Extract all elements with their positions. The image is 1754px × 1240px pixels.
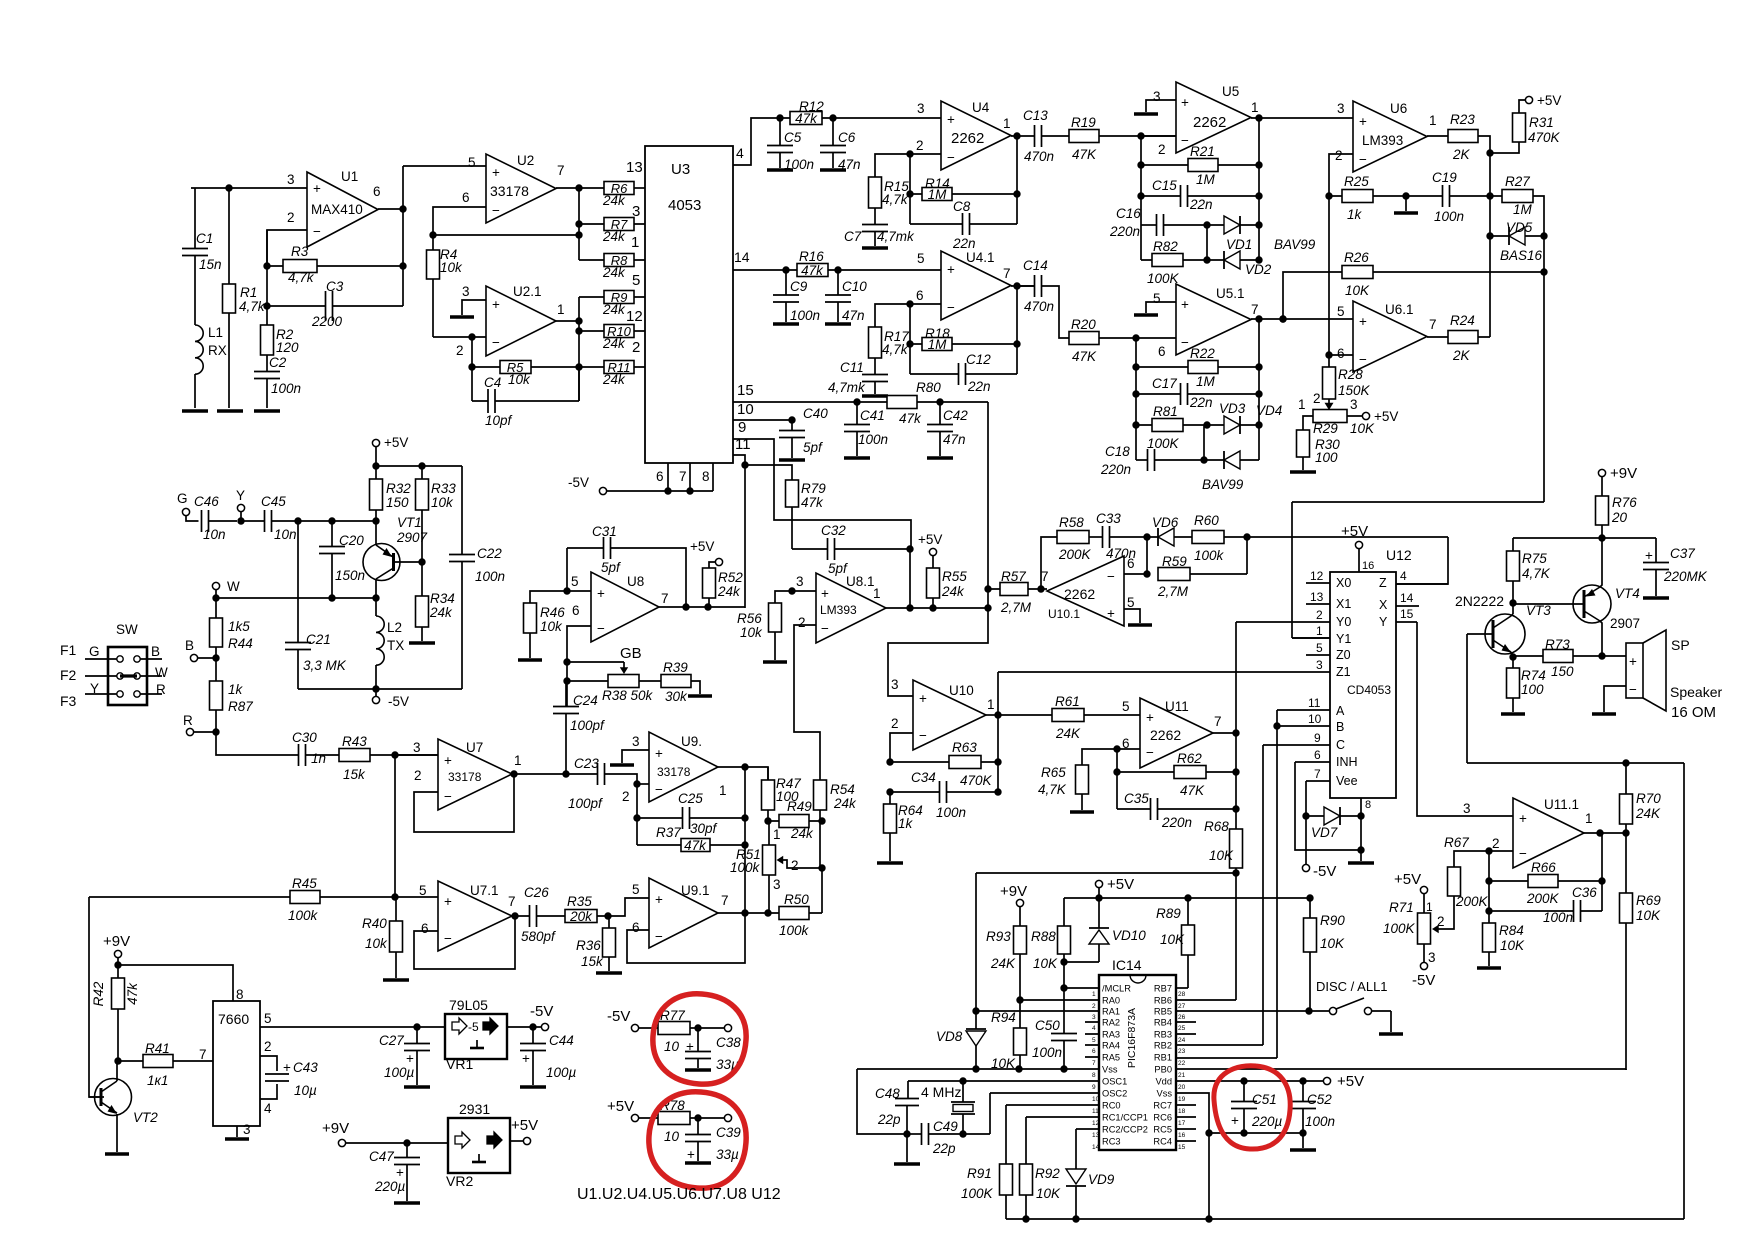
- capacitor C22: [461, 466, 463, 555]
- svg-text:4053: 4053: [668, 197, 701, 214]
- terminal +5V Vdd: [1323, 1077, 1330, 1084]
- resistor R42: [112, 978, 125, 1009]
- svg-text:100K: 100K: [1383, 921, 1416, 936]
- svg-text:OSC2: OSC2: [1102, 1089, 1127, 1099]
- resistor R35: [565, 910, 597, 923]
- terminal +5V IC14: [1095, 880, 1102, 887]
- svg-text:B: B: [1336, 720, 1344, 734]
- ground C41: [844, 456, 870, 459]
- svg-text:100k: 100k: [288, 908, 319, 923]
- svg-text:C37: C37: [1670, 546, 1695, 561]
- resistor R68: [1230, 829, 1243, 868]
- svg-text:RA5: RA5: [1102, 1053, 1120, 1063]
- wire RB2: [1176, 1044, 1263, 1046]
- junction U7.1 pin5: [391, 893, 398, 900]
- diode VD4: [1224, 451, 1240, 469]
- op-amp U1 MAX410: [307, 172, 378, 247]
- resistor R58: [1057, 531, 1089, 544]
- svg-text:C12: C12: [966, 352, 991, 367]
- resistor R81: [1152, 419, 1183, 432]
- svg-text:C25: C25: [678, 791, 703, 806]
- svg-text:2: 2: [798, 615, 806, 630]
- svg-text:200K: 200K: [1455, 894, 1489, 909]
- svg-text:C44: C44: [549, 1033, 574, 1048]
- svg-text:100k: 100k: [1194, 548, 1225, 563]
- wire VD5 to R26: [1543, 236, 1545, 272]
- capacitor C52: [1302, 1081, 1304, 1102]
- wire pin6 column: [909, 304, 911, 374]
- svg-text:+5V: +5V: [1394, 871, 1421, 888]
- svg-text:47K: 47K: [1180, 783, 1205, 798]
- svg-text:C20: C20: [339, 533, 364, 548]
- junction base: [372, 517, 379, 524]
- svg-text:220n: 220n: [1100, 462, 1131, 477]
- wire U11.1 output: [1584, 832, 1626, 834]
- svg-text:15n: 15n: [199, 257, 222, 272]
- svg-text:C6: C6: [838, 130, 856, 145]
- wire U7 feedback: [414, 774, 514, 832]
- svg-text:R22: R22: [1190, 346, 1215, 361]
- svg-text:7: 7: [1251, 302, 1259, 317]
- svg-text:C51: C51: [1252, 1092, 1277, 1107]
- svg-text:10: 10: [664, 1039, 680, 1054]
- svg-text:R28: R28: [1338, 367, 1363, 382]
- svg-text:C15: C15: [1152, 178, 1177, 193]
- junction R73 right: [1598, 652, 1605, 659]
- resistor R65: [1076, 765, 1089, 794]
- svg-text:7: 7: [508, 894, 516, 909]
- svg-text:C22: C22: [477, 546, 502, 561]
- svg-text:R45: R45: [292, 876, 317, 891]
- junction R19 out: [1137, 132, 1144, 139]
- svg-text:1: 1: [1429, 113, 1437, 128]
- svg-text:−: −: [1359, 352, 1367, 367]
- diode VD7: [1324, 807, 1340, 825]
- svg-text:1: 1: [773, 827, 781, 842]
- diode VD6: [1158, 528, 1174, 546]
- svg-text:LM393: LM393: [820, 603, 857, 617]
- svg-text:C31: C31: [592, 524, 617, 539]
- svg-text:7: 7: [1003, 266, 1011, 281]
- svg-text:22: 22: [1178, 1060, 1186, 1067]
- svg-text:10K: 10K: [991, 1056, 1016, 1071]
- wire U11 output: [1213, 732, 1236, 734]
- svg-text:100pf: 100pf: [568, 796, 603, 811]
- svg-text:22n: 22n: [1189, 197, 1213, 212]
- svg-text:R54: R54: [830, 782, 855, 797]
- svg-text:100K: 100K: [961, 1186, 994, 1201]
- svg-text:R3: R3: [291, 244, 309, 259]
- svg-text:VD3: VD3: [1219, 401, 1246, 416]
- svg-text:+5V: +5V: [1337, 1073, 1364, 1090]
- terminal -5V U3: [599, 487, 606, 494]
- potentiometer R51: [763, 845, 776, 875]
- svg-text:VD1: VD1: [1226, 237, 1252, 252]
- junction R57 out: [1037, 585, 1044, 592]
- svg-text:14: 14: [1400, 591, 1414, 605]
- op-amp U10 2262: [913, 680, 986, 750]
- resistor R28: [1323, 367, 1336, 399]
- svg-text:U2.1: U2.1: [513, 284, 542, 299]
- ground switch: [1379, 1032, 1403, 1035]
- svg-text:5: 5: [917, 251, 925, 266]
- junction C9: [782, 266, 789, 273]
- junction R20 out: [1132, 334, 1139, 341]
- wire RC2 / VD9: [1076, 1129, 1099, 1169]
- wire U4 output: [1011, 135, 1035, 137]
- svg-text:24k: 24k: [790, 826, 814, 841]
- svg-text:R29: R29: [1313, 421, 1338, 436]
- wire +5V row IC14: [1064, 897, 1310, 899]
- svg-text:R25: R25: [1344, 174, 1369, 189]
- svg-text:2: 2: [1158, 142, 1166, 157]
- svg-text:C14: C14: [1023, 258, 1048, 273]
- wire INH pin6: [1295, 762, 1361, 850]
- resistor R30: [1297, 430, 1310, 457]
- svg-text:VD10: VD10: [1112, 928, 1146, 943]
- junction R43 out: [391, 751, 398, 758]
- terminal +5V VR2: [523, 1137, 530, 1144]
- svg-text:F2: F2: [60, 667, 77, 683]
- svg-text:R92: R92: [1035, 1166, 1060, 1181]
- svg-text:+: +: [1629, 654, 1637, 669]
- resistor R31: [1513, 113, 1526, 142]
- svg-text:Z1: Z1: [1336, 665, 1351, 679]
- svg-text:C32: C32: [821, 523, 846, 538]
- terminal -5V R71: [1420, 962, 1427, 969]
- wire U10.1 pin6: [1124, 573, 1147, 575]
- ground U5 pin3: [1134, 112, 1158, 115]
- wire gnd row C51/C52: [1209, 1132, 1303, 1134]
- svg-text:4,7mk: 4,7mk: [877, 229, 915, 244]
- junction pin6: [1325, 351, 1332, 358]
- resistor R55: [927, 568, 940, 598]
- svg-text:R36: R36: [576, 938, 601, 953]
- svg-text:R73: R73: [1545, 637, 1570, 652]
- capacitor C47: [406, 1143, 408, 1158]
- svg-text:3: 3: [1463, 801, 1471, 816]
- svg-text:24K: 24K: [1055, 726, 1081, 741]
- junction -5V: [372, 685, 379, 692]
- svg-text:RA0: RA0: [1102, 996, 1120, 1006]
- resistor R10: [604, 325, 634, 338]
- crystal 4MHz: [951, 1081, 975, 1114]
- resistor R78: [658, 1112, 690, 1125]
- svg-text:2: 2: [264, 1039, 272, 1054]
- wire right down to bottom: [1683, 763, 1685, 1219]
- capacitor C39: [697, 1118, 699, 1135]
- terminal -5V R77: [631, 1024, 638, 1031]
- wire RB1: [1176, 1057, 1277, 1059]
- wire +5V row: [376, 465, 462, 467]
- svg-text:22n: 22n: [952, 236, 976, 251]
- junction Y: [237, 517, 244, 524]
- svg-text:10K: 10K: [1209, 848, 1234, 863]
- svg-text:−: −: [597, 621, 605, 636]
- wire R62/C35 column: [1116, 749, 1118, 809]
- resistor R43: [339, 749, 370, 762]
- svg-text:2N2222: 2N2222: [1455, 593, 1504, 609]
- capacitor C49: [907, 1133, 922, 1135]
- junction C41: [853, 398, 860, 405]
- junction R60 out: [1243, 533, 1250, 540]
- svg-text:R: R: [183, 713, 193, 728]
- ground C48: [906, 1134, 908, 1162]
- ground R36: [596, 971, 622, 974]
- terminal G: [182, 508, 189, 515]
- svg-text:C45: C45: [261, 494, 286, 509]
- svg-text:C16: C16: [1116, 206, 1141, 221]
- capacitor C37: [1655, 538, 1657, 563]
- ground R34: [409, 641, 435, 644]
- svg-text:+: +: [947, 112, 955, 127]
- resistor R14: [922, 188, 952, 201]
- capacitor C24: [565, 681, 567, 707]
- svg-text:U9.: U9.: [681, 734, 702, 749]
- svg-text:R55: R55: [942, 569, 967, 584]
- junction R3 right: [399, 262, 406, 269]
- wire -5V row TX: [298, 688, 462, 690]
- svg-text:1: 1: [1092, 991, 1096, 998]
- svg-text:VD4: VD4: [1256, 403, 1282, 418]
- svg-text:7: 7: [557, 163, 565, 178]
- svg-text:X: X: [1379, 598, 1388, 612]
- wire U9.1 output: [718, 912, 822, 914]
- svg-text:Y: Y: [236, 488, 245, 503]
- potentiometer R38: [608, 675, 639, 688]
- resistor R20: [1069, 332, 1099, 345]
- svg-text:1: 1: [631, 234, 639, 251]
- diode VD2: [1224, 251, 1240, 269]
- red circle C38: [653, 994, 746, 1084]
- svg-text:R42: R42: [91, 981, 106, 1006]
- resistor R19: [1069, 130, 1099, 143]
- junction C27: [413, 1023, 420, 1030]
- junction C38: [694, 1024, 701, 1031]
- resistor R49: [779, 815, 809, 828]
- terminal +5V R78: [631, 1114, 638, 1121]
- op-amp U5.1: [1176, 284, 1251, 355]
- svg-text:C19: C19: [1432, 170, 1457, 185]
- svg-text:R50: R50: [784, 892, 809, 907]
- svg-text:R82: R82: [1153, 239, 1178, 254]
- svg-text:15k: 15k: [581, 954, 604, 969]
- svg-text:1: 1: [873, 586, 881, 601]
- junction R3 left: [263, 262, 270, 269]
- svg-text:U8: U8: [627, 574, 644, 589]
- svg-text:−: −: [313, 224, 321, 239]
- svg-text:2K: 2K: [1452, 348, 1471, 363]
- ground C5: [767, 168, 793, 171]
- svg-text:11: 11: [735, 436, 751, 453]
- svg-text:10k: 10k: [540, 619, 563, 634]
- svg-text:20: 20: [1611, 510, 1628, 525]
- junction R36: [604, 912, 611, 919]
- junction C39: [694, 1114, 701, 1121]
- svg-text:13: 13: [626, 159, 643, 176]
- svg-text:VT1: VT1: [397, 515, 422, 530]
- resistor R27: [1502, 190, 1533, 203]
- svg-text:C11: C11: [840, 360, 864, 375]
- op-amp U4 2262: [941, 101, 1011, 170]
- svg-text:RA3: RA3: [1102, 1030, 1120, 1040]
- svg-text:7: 7: [721, 893, 729, 908]
- wire C42 net to U10 pin3: [888, 402, 988, 696]
- svg-text:U10.1: U10.1: [1048, 607, 1080, 621]
- svg-text:33178: 33178: [448, 770, 482, 784]
- wire U3 pin11: [733, 455, 745, 608]
- junction pin2: [468, 333, 475, 340]
- svg-text:1n: 1n: [311, 751, 326, 766]
- wire Vss row: [857, 1068, 1099, 1070]
- svg-text:PIC16F873A: PIC16F873A: [1126, 1008, 1138, 1068]
- svg-text:4: 4: [1400, 569, 1407, 583]
- wire 7660 pin5: [260, 1026, 417, 1028]
- svg-text:1: 1: [1585, 811, 1593, 826]
- junction pin6 net: [575, 231, 582, 238]
- svg-text:R40: R40: [362, 916, 387, 931]
- svg-text:5: 5: [632, 882, 640, 897]
- svg-text:2: 2: [791, 858, 799, 873]
- svg-text:4,7k: 4,7k: [882, 342, 909, 357]
- capacitor C1: [194, 188, 196, 249]
- svg-text:+: +: [1359, 114, 1367, 129]
- svg-text:3,3 MK: 3,3 MK: [303, 658, 347, 673]
- junction C25 left: [633, 814, 640, 821]
- capacitor C12: [910, 373, 959, 375]
- svg-text:B: B: [185, 638, 194, 653]
- U3 pins 6 7 8: [668, 463, 713, 491]
- svg-text:100K: 100K: [1147, 436, 1180, 451]
- svg-text:10K: 10K: [1160, 932, 1185, 947]
- svg-text:16 OM: 16 OM: [1671, 704, 1716, 721]
- svg-text:RC7: RC7: [1153, 1101, 1172, 1111]
- junction U2 out: [575, 184, 582, 191]
- junction R4 top: [429, 231, 436, 238]
- 7660 pin3 ground: [236, 1126, 238, 1137]
- svg-text:C17: C17: [1152, 376, 1177, 391]
- junction R10: [575, 327, 582, 334]
- svg-text:+: +: [396, 1165, 404, 1180]
- op-amp U5 2262: [1176, 82, 1251, 153]
- wire R54 bottom: [820, 810, 822, 913]
- svg-text:2,7M: 2,7M: [1000, 600, 1032, 615]
- svg-text:13: 13: [1092, 1132, 1100, 1139]
- svg-text:F1: F1: [60, 642, 77, 658]
- svg-text:R60: R60: [1194, 513, 1219, 528]
- svg-text:RC3: RC3: [1102, 1137, 1121, 1147]
- resistor R40: [390, 921, 403, 952]
- svg-text:220n: 220n: [1109, 224, 1140, 239]
- svg-text:G: G: [177, 491, 188, 506]
- wire R28 arrow: [1328, 399, 1330, 405]
- svg-text:23: 23: [1178, 1048, 1186, 1055]
- svg-text:+: +: [1519, 811, 1527, 826]
- svg-text:R74: R74: [1521, 668, 1546, 683]
- svg-text:VD9: VD9: [1088, 1172, 1115, 1187]
- svg-text:+9V: +9V: [1000, 883, 1027, 900]
- terminal +5V R31: [1525, 96, 1532, 103]
- junction R7: [575, 220, 582, 227]
- svg-text:7: 7: [1214, 714, 1222, 729]
- terminal B: [190, 654, 197, 661]
- svg-text:47k: 47k: [801, 495, 824, 510]
- wire U3 pin4: [733, 118, 780, 165]
- IC IC14 PIC16F873A: [1099, 975, 1176, 1150]
- svg-text:2262: 2262: [1193, 114, 1226, 131]
- svg-text:3: 3: [773, 877, 781, 892]
- svg-text:+5V: +5V: [1537, 93, 1561, 108]
- svg-text:15: 15: [1178, 1144, 1186, 1151]
- junction B: [212, 654, 219, 661]
- wire 7660 pin2 C43 pin4: [260, 1056, 277, 1099]
- svg-text:3: 3: [632, 203, 640, 220]
- svg-text:BAS16: BAS16: [1500, 248, 1543, 263]
- svg-text:Z: Z: [1379, 576, 1387, 590]
- svg-text:R58: R58: [1059, 515, 1084, 530]
- svg-text:6: 6: [656, 469, 664, 484]
- wire U3 pin9: [733, 439, 911, 549]
- wire U3 pin10: [733, 419, 792, 421]
- svg-text:C8: C8: [953, 199, 971, 214]
- svg-text:RC0: RC0: [1102, 1101, 1121, 1111]
- svg-text:C42: C42: [943, 408, 968, 423]
- svg-text:-5: -5: [468, 1020, 479, 1034]
- svg-text:R69: R69: [1636, 893, 1661, 908]
- svg-text:10pf: 10pf: [485, 413, 513, 428]
- svg-text:+: +: [597, 586, 605, 601]
- op-amp U8 LM393: [591, 572, 659, 642]
- svg-text:580pf: 580pf: [521, 929, 556, 944]
- svg-text:C48: C48: [875, 1086, 900, 1101]
- wire U10.1 pin5 ground: [1124, 609, 1140, 623]
- svg-text:+: +: [406, 1051, 414, 1066]
- svg-text:15k: 15k: [343, 767, 366, 782]
- svg-text:5: 5: [1153, 291, 1161, 306]
- svg-text:R16: R16: [799, 249, 824, 264]
- svg-text:MAX410: MAX410: [311, 202, 363, 217]
- svg-text:100n: 100n: [1434, 209, 1464, 224]
- resistor R52: [703, 568, 716, 598]
- svg-text:5: 5: [1316, 641, 1323, 655]
- svg-text:3: 3: [1316, 658, 1323, 672]
- svg-text:7: 7: [679, 469, 687, 484]
- capacitor C42: [939, 402, 941, 425]
- terminal +5V R52: [715, 558, 722, 565]
- svg-text:+: +: [1181, 297, 1189, 312]
- inductor L2 TX: [375, 598, 377, 616]
- svg-text:24k: 24k: [429, 605, 453, 620]
- capacitor C26: [530, 905, 537, 927]
- svg-text:+: +: [919, 691, 927, 706]
- svg-text:2200: 2200: [311, 314, 343, 329]
- svg-text:17: 17: [1178, 1120, 1186, 1127]
- svg-text:2907: 2907: [1610, 616, 1640, 631]
- svg-text:Speaker: Speaker: [1670, 684, 1722, 700]
- resistor R44: [210, 618, 223, 647]
- op-amp U2.1: [486, 286, 556, 356]
- ground C1/L1: [182, 409, 208, 412]
- svg-text:4,7k: 4,7k: [882, 192, 909, 207]
- IC 7660: [213, 1001, 260, 1126]
- svg-text:2931: 2931: [459, 1101, 490, 1117]
- svg-text:C5: C5: [784, 130, 802, 145]
- svg-text:U6: U6: [1390, 101, 1407, 116]
- svg-text:100: 100: [1521, 682, 1544, 697]
- ground C19 left: [1405, 196, 1407, 211]
- wire U5 pin3 ground: [1146, 100, 1176, 112]
- svg-text:150K: 150K: [1338, 383, 1371, 398]
